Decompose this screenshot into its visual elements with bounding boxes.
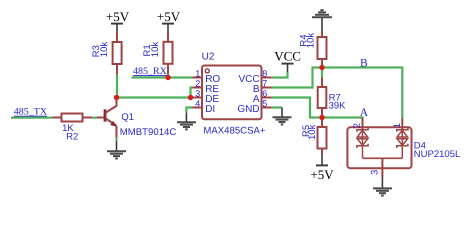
svg-text:U2: U2	[202, 52, 215, 63]
diode array D4 NUP2105L	[347, 118, 460, 178]
svg-text:8: 8	[262, 68, 267, 78]
svg-text:+5V: +5V	[106, 9, 130, 24]
svg-text:1: 1	[195, 68, 200, 78]
wire net B to D4 pin 1	[322, 68, 402, 118]
wire R2 to Q1 base	[92, 117, 97, 119]
wire RE tie	[191, 88, 193, 98]
svg-text:DI: DI	[205, 104, 215, 115]
wire pin5 GND	[272, 106, 282, 108]
net label 485_TX	[14, 107, 48, 118]
svg-text:2: 2	[352, 123, 363, 128]
svg-text:Q1: Q1	[121, 112, 134, 123]
junction DE / RE	[188, 95, 193, 100]
svg-text:GND: GND	[237, 104, 259, 115]
wire R3 to DE junction	[116, 74, 118, 97]
junction 485_RX / R1	[165, 75, 170, 80]
wire 485_TX to R2	[11, 117, 53, 119]
ground (DI pin 4)	[177, 113, 196, 130]
svg-text:10k: 10k	[150, 42, 161, 58]
resistor R5 10k	[301, 118, 327, 154]
wire pin6 A to junction	[272, 98, 322, 118]
wire R1 bottom to RX junction	[167, 74, 169, 78]
wire 485_RX to pin 1	[132, 76, 193, 78]
svg-text:10k: 10k	[99, 42, 110, 58]
svg-text:3: 3	[369, 170, 380, 175]
junction A / R7 / R5	[319, 115, 324, 120]
wire DI to ground	[186, 108, 192, 113]
power +5V symbol (above R3)	[106, 9, 130, 32]
ground (Q1 emitter)	[107, 137, 126, 159]
junction R3 / collector / DE	[114, 95, 119, 100]
resistor R4 10k	[299, 32, 327, 68]
resistor R2 1K	[53, 114, 93, 143]
pin 6 stub	[262, 97, 272, 99]
left TVS leg	[357, 128, 368, 159]
pin 3 stub	[381, 158, 383, 177]
svg-text:1: 1	[392, 123, 403, 128]
power +5V symbol (below R5, inverted)	[310, 154, 334, 182]
svg-text:6: 6	[262, 88, 267, 98]
op IC U2 MAX485CSA+	[193, 52, 272, 137]
svg-text:VCC: VCC	[274, 48, 301, 63]
net label 485_RX	[133, 66, 168, 77]
svg-text:B: B	[360, 57, 368, 69]
svg-text:39K: 39K	[329, 100, 347, 111]
svg-text:MMBT9014C: MMBT9014C	[120, 127, 177, 138]
svg-text:MAX485CSA+: MAX485CSA+	[203, 126, 266, 137]
ground (GND pin 5)	[273, 108, 292, 125]
ground (top, above R4, inverted)	[312, 10, 332, 32]
svg-text:NUP2105L: NUP2105L	[414, 149, 460, 160]
pin 1 stub	[401, 118, 403, 130]
resistor R7 39K	[318, 68, 346, 118]
resistor R3 10k	[91, 32, 122, 74]
svg-text:5: 5	[262, 98, 267, 108]
pin 5 stub	[262, 107, 272, 109]
pin 1 stub	[193, 77, 203, 79]
svg-text:10k: 10k	[307, 124, 318, 140]
pin 2 stub	[193, 87, 203, 89]
ground (D4 pin 3)	[373, 177, 392, 195]
svg-text:4: 4	[195, 98, 200, 108]
power +5V symbol (above R1)	[157, 9, 181, 32]
wire net A to D4 pin 2	[322, 118, 363, 119]
junction B / R4 / R7	[319, 65, 324, 70]
wire pin7 B to junction	[272, 68, 322, 88]
svg-text:3: 3	[195, 88, 200, 98]
wire pin8 to VCC	[272, 72, 288, 78]
svg-text:+5V: +5V	[310, 167, 334, 182]
right TVS leg	[397, 128, 408, 159]
pin 3 stub	[193, 97, 203, 99]
wire collector / DE net	[117, 96, 191, 98]
svg-text:R2: R2	[66, 131, 78, 142]
svg-text:2: 2	[195, 78, 200, 88]
svg-text:10k: 10k	[306, 33, 317, 49]
pin 7 stub	[262, 87, 272, 89]
pin 8 stub	[262, 77, 272, 79]
power VCC symbol	[274, 48, 301, 72]
pin 2 stub	[362, 118, 364, 130]
pin 4 stub	[193, 107, 203, 109]
svg-text:7: 7	[262, 78, 267, 88]
resistor R1 10k	[142, 32, 173, 73]
svg-text:+5V: +5V	[157, 9, 181, 24]
internal bus	[363, 157, 403, 159]
svg-text:A: A	[360, 107, 369, 119]
transistor Q1 MMBT9014C	[97, 98, 176, 138]
